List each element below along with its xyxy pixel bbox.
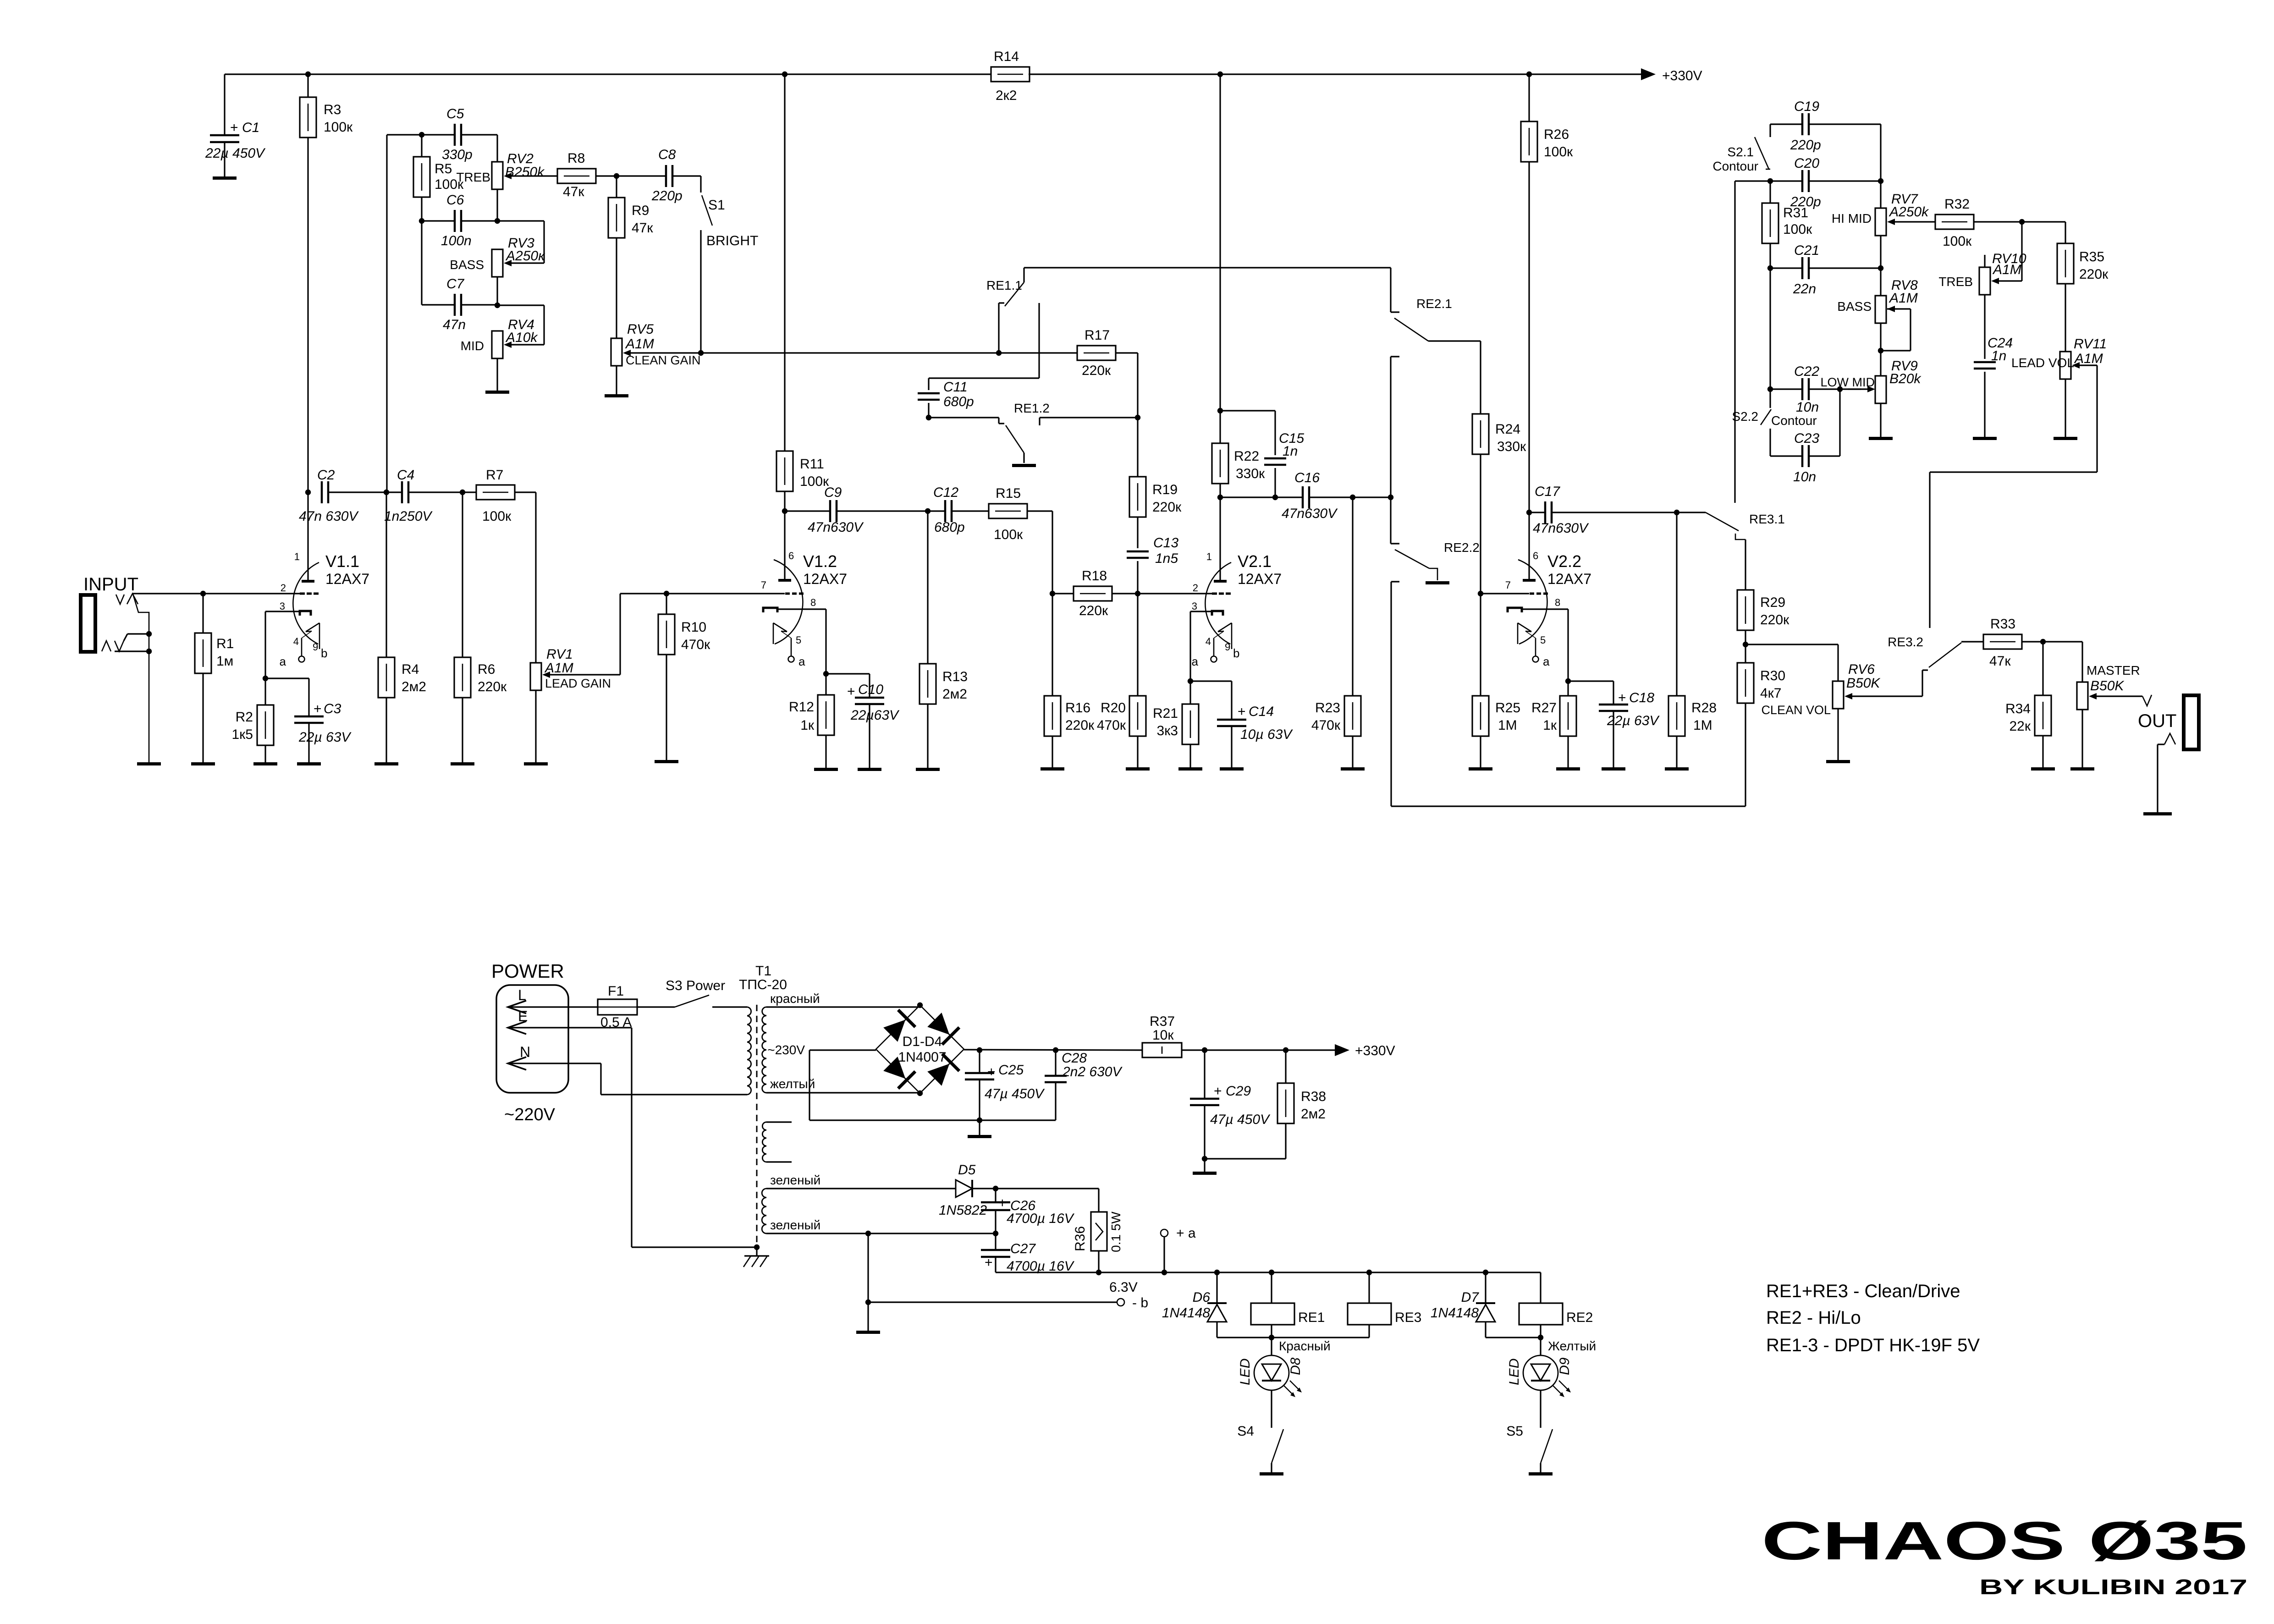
svg-text:R26: R26 bbox=[1544, 127, 1569, 142]
svg-text:470к: 470к bbox=[681, 637, 710, 652]
svg-text:RE1-3 - DPDT HK-19F 5V: RE1-3 - DPDT HK-19F 5V bbox=[1766, 1335, 1980, 1355]
svg-text:R29: R29 bbox=[1760, 595, 1785, 610]
jack INPUT bbox=[81, 595, 95, 652]
ground C25 bbox=[968, 1120, 991, 1138]
svg-text:S4: S4 bbox=[1237, 1424, 1254, 1439]
svg-text:A250к: A250к bbox=[505, 248, 545, 264]
label INPUT bbox=[83, 574, 138, 595]
potentiometer RV1 LEAD GAIN bbox=[530, 647, 611, 762]
svg-text:S1: S1 bbox=[708, 198, 725, 213]
node bridge top bbox=[917, 1002, 923, 1008]
wire RV2 to C6 node bbox=[496, 189, 498, 221]
svg-text:47µ 450V: 47µ 450V bbox=[985, 1086, 1045, 1101]
svg-text:6: 6 bbox=[1533, 550, 1538, 562]
svg-text:2м2: 2м2 bbox=[402, 679, 426, 694]
ground S5 bbox=[1529, 1472, 1553, 1475]
ground R10 bbox=[655, 760, 678, 763]
svg-text:1к5: 1к5 bbox=[232, 727, 253, 742]
svg-text:12AX7: 12AX7 bbox=[1238, 571, 1282, 587]
svg-text:R4: R4 bbox=[402, 662, 419, 677]
svg-text:b: b bbox=[321, 646, 327, 660]
svg-text:RE3.1: RE3.1 bbox=[1749, 512, 1785, 526]
wire V2.1 grid bbox=[1138, 593, 1212, 594]
node C4-R7 R6 bbox=[408, 490, 476, 495]
ground R12 bbox=[814, 768, 838, 771]
svg-text:8: 8 bbox=[1555, 597, 1560, 608]
svg-text:47n: 47n bbox=[443, 317, 466, 332]
ground R25 bbox=[1469, 767, 1492, 771]
svg-text:C2: C2 bbox=[317, 468, 335, 483]
node C5-R5 bbox=[387, 132, 455, 138]
diode D5 bbox=[939, 1162, 987, 1218]
node C21 right bbox=[1809, 265, 1883, 271]
ground S4 bbox=[1260, 1472, 1283, 1475]
ground R1 bbox=[191, 762, 215, 765]
ground input jack bbox=[137, 762, 161, 765]
jack OUT sleeve contact bbox=[2158, 733, 2175, 812]
svg-text:RE1+RE3 - Clean/Drive: RE1+RE3 - Clean/Drive bbox=[1766, 1281, 1960, 1301]
node C16-RE2 bbox=[1388, 495, 1393, 500]
resistor R35 bbox=[2057, 222, 2109, 352]
ground RV1 bbox=[524, 762, 548, 765]
svg-text:R13: R13 bbox=[942, 669, 968, 684]
wire R3 to C2 node bbox=[307, 138, 308, 492]
node +330V arrow and label bbox=[1641, 68, 1702, 83]
transformer T1 core bbox=[756, 1005, 758, 1244]
node C6 right bbox=[461, 218, 500, 224]
svg-text:V1.1: V1.1 bbox=[325, 552, 359, 571]
capacitor C16 bbox=[1220, 470, 1338, 521]
node R1-grid bbox=[200, 591, 206, 596]
node C2 left bbox=[305, 490, 311, 495]
svg-text:+: + bbox=[230, 120, 238, 135]
node bridge bottom bbox=[917, 1090, 923, 1096]
svg-text:+ a: + a bbox=[1176, 1226, 1196, 1241]
wire C7 left leg bbox=[422, 221, 455, 305]
diode D1 bbox=[883, 1010, 915, 1042]
svg-text:C21: C21 bbox=[1794, 243, 1819, 258]
svg-text:F1: F1 bbox=[608, 984, 624, 999]
wire C1 feed bbox=[224, 74, 225, 135]
label D1-D4 bbox=[898, 1034, 946, 1065]
svg-text:a: a bbox=[798, 655, 805, 668]
terminal + a bbox=[1161, 1226, 1196, 1275]
node V2.1 grid bbox=[1135, 591, 1140, 596]
wire heater dc bus bbox=[996, 1272, 1541, 1273]
resistor R24 bbox=[1472, 341, 1526, 594]
wire bridge DC+ rail bbox=[964, 1050, 1142, 1050]
svg-text:R7: R7 bbox=[486, 468, 503, 483]
svg-text:RE1.1: RE1.1 bbox=[986, 278, 1022, 292]
node R22 bottom bbox=[1217, 484, 1223, 500]
capacitor C22 bbox=[1794, 364, 1819, 415]
svg-text:R30: R30 bbox=[1760, 668, 1785, 683]
node RE1 top bbox=[1269, 1270, 1274, 1275]
svg-text:100к: 100к bbox=[1783, 222, 1812, 237]
potentiometer RV8 BASS bbox=[1837, 268, 1918, 351]
capacitor C5 bbox=[442, 106, 473, 162]
node rail-R26 bbox=[1526, 72, 1532, 77]
svg-text:OUT: OUT bbox=[2138, 711, 2176, 731]
capacitor C20 bbox=[1770, 156, 1821, 209]
logo CHAOS 035 bbox=[1762, 1511, 2247, 1571]
svg-text:A1M: A1M bbox=[625, 336, 654, 352]
capacitor C28 bbox=[1045, 1050, 1123, 1120]
resistor R21 bbox=[1153, 681, 1199, 767]
svg-text:3: 3 bbox=[280, 600, 285, 612]
wire RV2 wiper to R8 bbox=[504, 173, 557, 179]
relay coil RE2 bbox=[1519, 1272, 1593, 1338]
svg-text:1N4148: 1N4148 bbox=[1162, 1305, 1210, 1321]
svg-text:R8: R8 bbox=[567, 151, 585, 166]
svg-text:V1.2: V1.2 bbox=[803, 552, 837, 571]
svg-text:R32: R32 bbox=[1944, 197, 1970, 212]
resistor R12 bbox=[789, 674, 834, 768]
svg-text:CLEAN VOL: CLEAN VOL bbox=[1761, 703, 1831, 717]
svg-text:22µ 63V: 22µ 63V bbox=[1607, 713, 1660, 728]
ground C1 bbox=[213, 176, 237, 180]
wire R31 to C22 bbox=[1769, 268, 1771, 389]
capacitor C24 bbox=[1974, 295, 2013, 437]
svg-text:220к: 220к bbox=[478, 679, 507, 694]
svg-text:R33: R33 bbox=[1990, 617, 2015, 632]
svg-text:R3: R3 bbox=[324, 102, 341, 117]
svg-text:R31: R31 bbox=[1783, 205, 1808, 220]
capacitor C1 bbox=[205, 120, 266, 176]
wire R30 to ground bus bbox=[1745, 703, 1746, 806]
svg-text:22µ63V: 22µ63V bbox=[850, 708, 900, 723]
svg-text:330к: 330к bbox=[1236, 466, 1265, 481]
node V1.1 cathode bbox=[263, 676, 268, 681]
resistor R28 bbox=[1668, 512, 1717, 767]
svg-text:BRIGHT: BRIGHT bbox=[706, 233, 758, 248]
transformer T1 primary winding bbox=[747, 1007, 751, 1095]
ground R2 bbox=[253, 762, 277, 765]
svg-text:5: 5 bbox=[1540, 634, 1546, 646]
svg-text:220p: 220p bbox=[651, 188, 683, 204]
potentiometer RV6 CLEAN VOL bbox=[1745, 644, 1881, 760]
pin L bbox=[508, 987, 568, 1013]
svg-text:+: + bbox=[1238, 704, 1246, 719]
ground RE1.2 bbox=[1012, 464, 1036, 467]
label OUT bbox=[2138, 711, 2176, 731]
svg-text:C12: C12 bbox=[933, 485, 958, 500]
svg-text:LED: LED bbox=[1507, 1359, 1522, 1385]
svg-text:R11: R11 bbox=[800, 457, 824, 472]
svg-text:RE1: RE1 bbox=[1298, 1310, 1325, 1325]
transformer T1 heater winding bbox=[762, 1189, 766, 1233]
svg-text:C13: C13 bbox=[1153, 535, 1178, 551]
svg-text:R28: R28 bbox=[1691, 700, 1717, 716]
capacitor C19 bbox=[1770, 99, 1881, 181]
svg-text:1м: 1м bbox=[216, 654, 233, 669]
svg-text:C11: C11 bbox=[943, 380, 968, 395]
relay coil RE1 bbox=[1251, 1272, 1325, 1338]
svg-text:0.1 5W: 0.1 5W bbox=[1109, 1211, 1123, 1252]
wire RE1.1 right stub to C11 bbox=[929, 303, 1039, 390]
svg-text:1n5: 1n5 bbox=[1155, 551, 1178, 566]
logo BY KULIBIN 2017 bbox=[1979, 1575, 2247, 1599]
label ~220V bbox=[504, 1105, 556, 1124]
resistor R17 bbox=[999, 328, 1116, 378]
svg-text:R27: R27 bbox=[1531, 700, 1557, 716]
svg-text:R18: R18 bbox=[1082, 568, 1107, 584]
svg-text:CHAOS Ø35: CHAOS Ø35 bbox=[1762, 1511, 2247, 1571]
svg-text:C19: C19 bbox=[1794, 99, 1819, 114]
resistor R9 bbox=[608, 176, 653, 238]
resistor R4 bbox=[378, 492, 426, 762]
ground C14 bbox=[1220, 767, 1244, 771]
svg-text:220к: 220к bbox=[1079, 603, 1108, 618]
svg-text:1M: 1M bbox=[1498, 718, 1517, 733]
wire V1.1 plate bbox=[307, 492, 308, 580]
jack OUT bbox=[2184, 695, 2199, 749]
potentiometer RV4 MID bbox=[461, 317, 539, 358]
svg-text:2м2: 2м2 bbox=[942, 687, 967, 702]
svg-text:RE2 - Hi/Lo: RE2 - Hi/Lo bbox=[1766, 1308, 1861, 1328]
switch S2.1 Contour bbox=[1712, 124, 1770, 173]
resistor R15 bbox=[952, 486, 1027, 542]
node C15 bottom bbox=[1272, 495, 1278, 500]
svg-text:Contour: Contour bbox=[1771, 413, 1817, 428]
ground R27 bbox=[1556, 767, 1580, 771]
diode D3 bbox=[883, 1057, 915, 1089]
svg-text:D5: D5 bbox=[958, 1162, 976, 1178]
svg-text:12AX7: 12AX7 bbox=[325, 571, 369, 587]
svg-text:6: 6 bbox=[788, 550, 794, 562]
capacitor C14 bbox=[1190, 681, 1293, 767]
node C9-C12 / R13 bbox=[837, 508, 945, 514]
resistor R16 bbox=[1044, 594, 1095, 767]
svg-text:D9: D9 bbox=[1557, 1357, 1572, 1375]
wire V1.2 grid bbox=[666, 593, 785, 594]
ground C10 bbox=[858, 768, 881, 771]
svg-text:LOW MID: LOW MID bbox=[1821, 375, 1875, 389]
svg-text:8: 8 bbox=[810, 597, 816, 608]
wire RE1.1 to RE2.1 bbox=[1024, 268, 1391, 312]
svg-text:красный: красный bbox=[770, 991, 820, 1006]
wire tone out to RE3.1 throw bbox=[1735, 181, 1770, 503]
svg-text:D8: D8 bbox=[1288, 1357, 1303, 1375]
resistor R14 bbox=[991, 49, 1030, 103]
wire tone stack left rail bbox=[386, 135, 387, 492]
svg-text:CLEAN GAIN: CLEAN GAIN bbox=[626, 353, 701, 367]
capacitor C8 bbox=[651, 147, 683, 204]
capacitor C7 bbox=[443, 276, 466, 332]
resistor R36 bbox=[1073, 1189, 1123, 1272]
svg-text:100n: 100n bbox=[441, 233, 472, 248]
resistor R30 bbox=[1737, 644, 1785, 703]
svg-text:+: + bbox=[847, 684, 855, 699]
svg-text:4: 4 bbox=[1206, 636, 1211, 647]
node C21 left bbox=[1767, 265, 1802, 271]
node C17-R28 bbox=[1674, 510, 1679, 515]
node C2-C4 R4 bbox=[328, 490, 402, 495]
ground RE2.2 bbox=[1426, 581, 1449, 584]
switch S2.2 Contour bbox=[1732, 389, 1817, 456]
resistor R2 bbox=[232, 678, 274, 762]
wire V2.1 plate bbox=[1219, 497, 1221, 580]
switch S4 bbox=[1237, 1423, 1283, 1472]
connector POWER bbox=[496, 985, 568, 1093]
wire V1.2 cathode bbox=[777, 609, 826, 674]
svg-text:RV11: RV11 bbox=[2074, 336, 2107, 352]
svg-text:1к: 1к bbox=[800, 718, 815, 733]
svg-text:зеленый: зеленый bbox=[770, 1173, 820, 1187]
ground RV5 bbox=[605, 394, 628, 397]
node C6 left bbox=[419, 218, 455, 224]
svg-text:A1M: A1M bbox=[1992, 262, 2021, 277]
wire зеленый 1 to D5 bbox=[766, 1188, 956, 1189]
ground R13 bbox=[916, 768, 940, 771]
node C11-RE1.2 bbox=[926, 403, 931, 420]
svg-text:47к: 47к bbox=[563, 184, 584, 199]
svg-text:C7: C7 bbox=[446, 276, 465, 292]
capacitor C10 bbox=[826, 674, 900, 768]
svg-text:LEAD VOL: LEAD VOL bbox=[2011, 356, 2074, 370]
svg-text:R17: R17 bbox=[1085, 328, 1110, 343]
capacitor C11 bbox=[918, 380, 974, 409]
node C28 top bbox=[1053, 1047, 1058, 1053]
svg-text:220к: 220к bbox=[1082, 363, 1111, 378]
node rail-R11 bbox=[782, 72, 787, 77]
svg-text:R5: R5 bbox=[435, 161, 452, 176]
svg-text:1n: 1n bbox=[1283, 444, 1298, 459]
wire RV7 wiper to R32 bbox=[1887, 219, 1935, 225]
resistor R33 bbox=[1961, 617, 2022, 669]
svg-text:RV1: RV1 bbox=[546, 647, 573, 662]
potentiometer RV11 LEAD VOL bbox=[2011, 336, 2107, 437]
svg-text:+330V: +330V bbox=[1355, 1043, 1395, 1058]
potentiometer MASTER B50K bbox=[2077, 642, 2140, 767]
svg-text:~220V: ~220V bbox=[504, 1105, 556, 1124]
label POWER bbox=[491, 960, 564, 982]
wire R17 to R19 bbox=[1116, 353, 1138, 418]
svg-text:6.3V: 6.3V bbox=[1109, 1280, 1138, 1295]
relay contact RE3.2 bbox=[1888, 635, 1961, 667]
svg-text:A10k: A10k bbox=[505, 330, 538, 345]
resistor R23 bbox=[1311, 497, 1361, 767]
svg-text:+: + bbox=[998, 1195, 1007, 1211]
wire V2.2 grid bbox=[1481, 593, 1529, 594]
svg-text:+: + bbox=[1618, 690, 1626, 705]
resistor R29 bbox=[1737, 539, 1789, 630]
ground RV9 bbox=[1869, 437, 1893, 440]
svg-text:2к2: 2к2 bbox=[996, 88, 1017, 103]
jack ring contact bbox=[102, 634, 149, 651]
svg-text:b: b bbox=[1233, 646, 1239, 660]
jack OUT tip contact bbox=[2142, 695, 2152, 706]
potentiometer RV2 TREB bbox=[456, 151, 545, 189]
resistor R11 bbox=[776, 74, 829, 491]
svg-text:+: + bbox=[1214, 1084, 1222, 1099]
ground C3 bbox=[297, 762, 321, 765]
node C29 bottom bbox=[1202, 1156, 1207, 1162]
wire V1.2 plate bbox=[784, 511, 785, 579]
svg-text:BASS: BASS bbox=[1837, 299, 1872, 314]
wire R32 node to RV10 wiper bbox=[1991, 222, 2022, 284]
ground C29 bbox=[1193, 1159, 1217, 1175]
node R29-R30-RV6 bbox=[1743, 630, 1748, 647]
svg-text:ТПС-20: ТПС-20 bbox=[739, 977, 787, 992]
node rail-R3 bbox=[305, 72, 311, 77]
svg-text:12AX7: 12AX7 bbox=[1547, 571, 1591, 587]
LED D8 Красный bbox=[1238, 1338, 1331, 1423]
ground R4 bbox=[374, 762, 398, 765]
diode D2 bbox=[927, 1013, 959, 1045]
svg-text:330к: 330к bbox=[1497, 439, 1526, 454]
svg-text:R25: R25 bbox=[1495, 700, 1520, 716]
wire желтый to bridge bbox=[766, 1092, 920, 1093]
wire RV4 to ground bbox=[496, 358, 498, 391]
switch S3 Power bbox=[637, 978, 747, 1007]
svg-text:~230V: ~230V bbox=[767, 1043, 805, 1057]
svg-text:1N4148: 1N4148 bbox=[1431, 1305, 1479, 1321]
svg-text:100к: 100к bbox=[994, 527, 1023, 542]
svg-text:1M: 1M bbox=[1693, 718, 1712, 733]
resistor R6 bbox=[454, 492, 507, 762]
resistor R20 bbox=[1097, 594, 1146, 767]
wire input tip to grid bbox=[138, 593, 300, 594]
svg-text:220к: 220к bbox=[1760, 612, 1789, 628]
svg-text:V2.2: V2.2 bbox=[1547, 552, 1581, 571]
ground RV11 bbox=[2054, 437, 2077, 440]
node RV8 bottom bbox=[1878, 348, 1883, 353]
resistor R37 bbox=[1142, 1014, 1182, 1057]
ground R16 bbox=[1041, 767, 1064, 771]
node C20 left bbox=[1767, 178, 1773, 184]
wire RV3 wiper loop bbox=[497, 221, 544, 266]
svg-text:C29: C29 bbox=[1226, 1084, 1251, 1099]
node V1.2 plate / C9 bbox=[782, 491, 787, 514]
resistor R10 bbox=[658, 594, 710, 760]
svg-text:R35: R35 bbox=[2079, 249, 2104, 264]
svg-text:100к: 100к bbox=[324, 120, 353, 135]
svg-text:R2: R2 bbox=[236, 710, 253, 725]
label зеленый 2 bbox=[770, 1218, 820, 1232]
svg-text:R12: R12 bbox=[789, 699, 814, 715]
svg-text:680p: 680p bbox=[943, 394, 974, 409]
node R22 top / C15 bbox=[1217, 408, 1223, 413]
node R38 top bbox=[1283, 1047, 1288, 1053]
svg-text:47n630V: 47n630V bbox=[808, 520, 864, 535]
transformer T1 middle winding bbox=[762, 1122, 792, 1162]
svg-text:L: L bbox=[518, 987, 526, 1003]
switch S5 bbox=[1506, 1423, 1553, 1472]
node V2.1 cathode bbox=[1188, 678, 1193, 684]
wire rail to R22 bbox=[1219, 74, 1221, 443]
svg-text:2n2 630V: 2n2 630V bbox=[1062, 1064, 1123, 1079]
wire C17 to RE3.1 bbox=[1552, 512, 1706, 513]
wire R15 to R18 node bbox=[1027, 511, 1052, 594]
node C25 top bbox=[977, 1047, 982, 1053]
svg-text:LED: LED bbox=[1238, 1359, 1253, 1385]
svg-text:E: E bbox=[518, 1008, 528, 1024]
svg-text:- b: - b bbox=[1132, 1295, 1148, 1310]
svg-text:S3 Power: S3 Power bbox=[666, 978, 725, 993]
svg-text:12AX7: 12AX7 bbox=[803, 571, 847, 587]
svg-text:Contour: Contour bbox=[1712, 159, 1758, 173]
svg-text:D1-D4: D1-D4 bbox=[903, 1034, 942, 1049]
svg-text:S2.2: S2.2 bbox=[1732, 409, 1758, 424]
svg-text:T1: T1 bbox=[755, 963, 771, 979]
svg-text:RE2.2: RE2.2 bbox=[1444, 540, 1480, 555]
svg-text:100к: 100к bbox=[1544, 144, 1573, 160]
ground C24 bbox=[1973, 437, 1997, 440]
node rail-V2.1 bbox=[1217, 72, 1223, 77]
svg-text:R16: R16 bbox=[1065, 700, 1090, 716]
wire R37 to +330V bbox=[1182, 1049, 1343, 1051]
